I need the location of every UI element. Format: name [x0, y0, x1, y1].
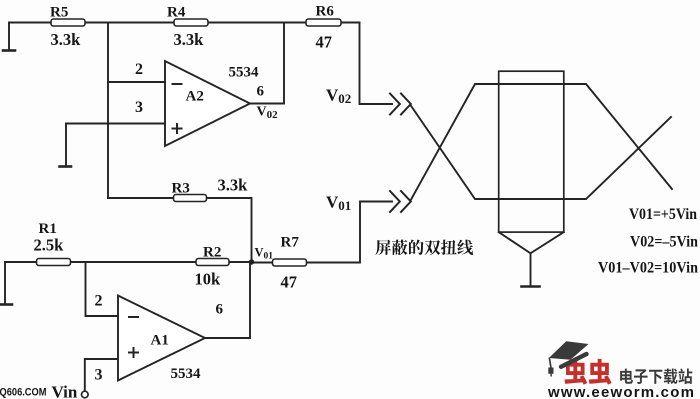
ground G4 shield: [522, 253, 540, 286]
logo 虫虫 red characters: [564, 359, 611, 385]
wire A2 non-inverting input: [66, 123, 165, 125]
svg-text:6: 6: [216, 302, 224, 318]
svg-text:R3: R3: [172, 181, 190, 197]
arrow chevrons V01 entry: [390, 191, 411, 212]
op-amp A2 minus sign: [173, 83, 182, 85]
label 屏蔽的双扭线 (shielded twisted pair): [375, 240, 473, 255]
op-amp A2 plus sign: [173, 124, 182, 133]
svg-text:47: 47: [281, 273, 298, 292]
svg-text:3: 3: [95, 367, 103, 384]
svg-text:Vin: Vin: [52, 383, 78, 399]
svg-text:2: 2: [95, 293, 103, 310]
svg-text:5534: 5534: [171, 366, 202, 382]
svg-text:3.3k: 3.3k: [218, 176, 249, 195]
op-amp A1 minus sign: [129, 316, 138, 318]
svg-text:V02: V02: [257, 105, 279, 122]
svg-text:A1: A1: [151, 333, 169, 349]
svg-text:V02: V02: [326, 86, 351, 106]
resistor R5: [51, 19, 85, 26]
resistor R7: [273, 259, 307, 266]
svg-text:V01: V01: [255, 246, 274, 262]
svg-text:A2: A2: [186, 89, 204, 105]
svg-text:6: 6: [257, 84, 265, 100]
wire V02 drop from top rail to twisted-pair entry: [360, 23, 393, 105]
logo graduation cap: [548, 341, 588, 376]
svg-text:R5: R5: [50, 5, 68, 21]
resistor R1: [37, 259, 71, 266]
svg-text:3: 3: [135, 99, 143, 116]
logo 电子下载站 text: [620, 369, 692, 385]
resistor R2: [196, 259, 229, 266]
op-amp U A2 triangle: [165, 61, 250, 146]
svg-text:R4: R4: [167, 5, 186, 21]
svg-text:R7: R7: [281, 235, 300, 251]
terminal Vin circle: [82, 391, 89, 398]
svg-text:3.3k: 3.3k: [174, 30, 205, 49]
wire V01 row to twisted-pair entry: [252, 202, 393, 263]
svg-text:R6: R6: [316, 4, 335, 20]
resistor R6: [306, 19, 341, 26]
wire A1 output up to node V01: [205, 262, 250, 338]
op-amp A1 plus sign: [129, 348, 138, 357]
svg-text:2: 2: [135, 61, 143, 78]
svg-text:V01–V02=10Vin: V01–V02=10Vin: [598, 260, 698, 277]
ground G2 at A2 non-inverting input: [60, 124, 72, 167]
svg-text:Q606.COM: Q606.COM: [0, 387, 47, 399]
ground G1 top-left: [3, 23, 15, 51]
wire top rail: [9, 22, 360, 24]
svg-text:2.5k: 2.5k: [34, 236, 65, 255]
node V01 junction dot: [249, 259, 254, 264]
svg-text:47: 47: [316, 33, 333, 52]
node A: junction R5/R4 vertical to A2 inverting input and R3: [107, 23, 109, 199]
wire junction to A1 inverting input: [86, 262, 119, 316]
shield funnel to ground: [499, 232, 564, 253]
ground G3 bottom-left: [1, 262, 13, 305]
shield rectangle: [499, 71, 564, 232]
svg-text:V01=+5Vin: V01=+5Vin: [629, 206, 697, 223]
wire A2 inverting input: [108, 81, 165, 83]
wire A1 non-inverting input from Vin terminal: [85, 359, 118, 391]
svg-text:5534: 5534: [229, 65, 260, 81]
arrow chevrons V02 entry: [390, 94, 411, 115]
wire A2 output feedback up to top rail: [250, 23, 284, 104]
svg-text:3.3k: 3.3k: [51, 30, 82, 49]
resistor R3: [174, 195, 207, 202]
resistor R4: [174, 19, 208, 26]
svg-text:V01: V01: [326, 193, 351, 213]
twisted pair wire V02 diagonal down: [411, 106, 671, 200]
wire bottom rail (Vin row): [5, 261, 252, 263]
svg-text:V02=–5Vin: V02=–5Vin: [630, 233, 698, 250]
op-amp U A1 triangle: [118, 296, 205, 381]
wire R3 row from node A to vertical at V01 column: [108, 198, 252, 262]
svg-text:10k: 10k: [195, 270, 222, 289]
svg-text:R2: R2: [203, 245, 221, 261]
svg-text:www.eeworm.com: www.eeworm.com: [547, 384, 695, 399]
twisted pair wire V01 diagonal up: [411, 84, 672, 200]
